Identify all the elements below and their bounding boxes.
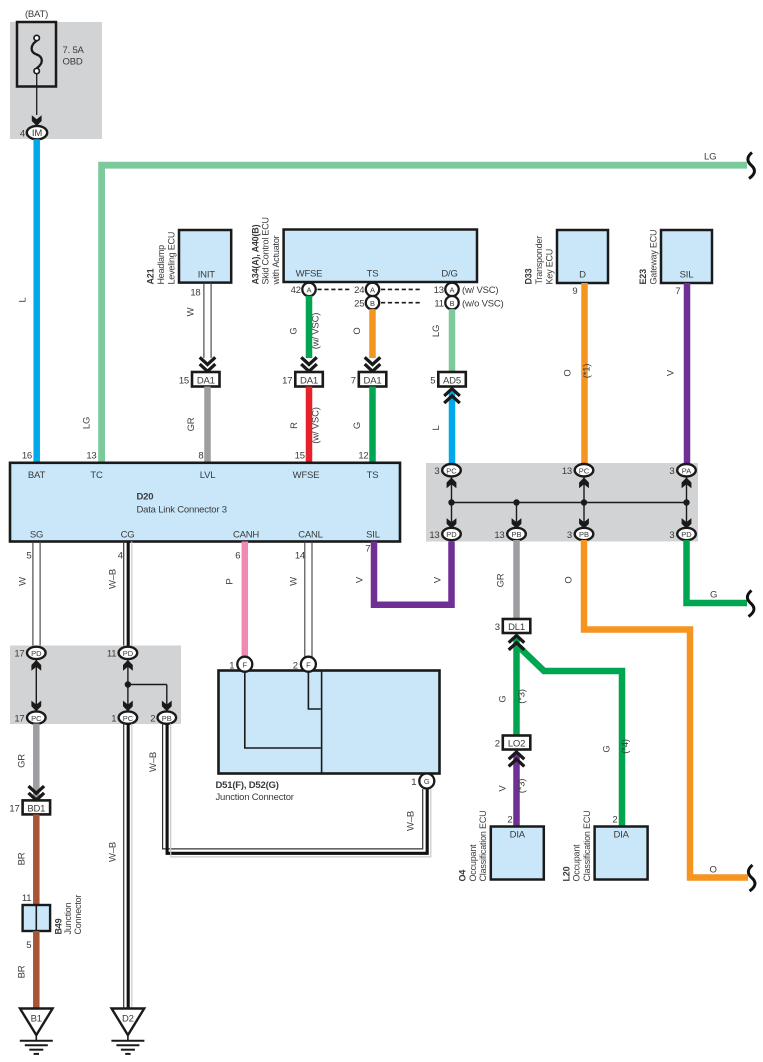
svg-text:1: 1 [111, 713, 116, 724]
svg-text:LG: LG [82, 417, 93, 429]
svg-text:11: 11 [434, 298, 443, 309]
pin 1 G [411, 774, 434, 789]
svg-text:LG: LG [704, 152, 716, 163]
svg-text:42: 42 [291, 285, 301, 296]
wire G (w/ VSC) 42A to DA1 [306, 296, 313, 358]
svg-text:17: 17 [14, 649, 24, 660]
svg-text:F: F [243, 660, 248, 669]
svg-text:B49: B49 [53, 918, 63, 934]
svg-text:DL1: DL1 [508, 622, 525, 633]
svg-text:DA1: DA1 [300, 375, 318, 386]
svg-text:PA: PA [682, 466, 691, 475]
junction dots [448, 499, 454, 505]
wire O 24A/25B to DA1 [369, 309, 376, 358]
wire P D20 CANH to 1 F [242, 542, 249, 658]
svg-text:L: L [431, 425, 442, 430]
svg-text:TC: TC [90, 470, 103, 481]
gray panel [10, 22, 102, 139]
svg-text:2: 2 [293, 660, 298, 671]
svg-text:V: V [433, 576, 444, 583]
svg-text:G: G [289, 327, 300, 334]
svg-text:17: 17 [14, 713, 24, 724]
svg-text:F: F [306, 660, 311, 669]
wire G (*3) DL1 to LO2 [513, 637, 520, 736]
node 17 PC [14, 711, 45, 724]
block links PD-PC and PD-PB branch [36, 660, 167, 712]
svg-text:3: 3 [434, 466, 439, 477]
wire L AD5 to 3 PC [449, 390, 456, 465]
svg-text:WFSE: WFSE [293, 470, 320, 481]
node 2 PB [150, 711, 176, 724]
svg-text:13: 13 [429, 530, 439, 541]
svg-text:1: 1 [229, 660, 234, 671]
svg-text:Classification ECU: Classification ECU [478, 811, 488, 882]
wire LG 13A/11B to AD5 [449, 309, 456, 372]
pin 11 B (w/o VSC) [434, 296, 503, 309]
off-page squiggle G [747, 591, 754, 617]
svg-text:PD: PD [681, 530, 692, 539]
wire G 3 PD to off-page [687, 540, 748, 603]
svg-text:7: 7 [675, 286, 680, 297]
svg-text:17: 17 [9, 803, 19, 814]
wire W-B 2 PB to junction connector G [163, 724, 431, 857]
svg-text:DIA: DIA [510, 830, 526, 841]
svg-text:DA1: DA1 [364, 375, 382, 386]
svg-text:7: 7 [365, 544, 370, 555]
svg-text:Occupant: Occupant [468, 844, 478, 882]
svg-text:with Actuator: with Actuator [271, 235, 281, 285]
svg-text:PC: PC [579, 466, 590, 475]
svg-text:Leveling ECU: Leveling ECU [166, 232, 176, 285]
svg-text:3: 3 [495, 622, 500, 633]
connector 3 DL1 [495, 619, 531, 633]
pin 24 A [354, 283, 379, 296]
svg-text:(*1): (*1) [582, 364, 593, 379]
svg-text:D51(F), D52(G): D51(F), D52(G) [216, 780, 279, 791]
svg-text:IM: IM [32, 128, 42, 139]
svg-text:Classification ECU: Classification ECU [582, 811, 592, 882]
svg-text:Junction Connector: Junction Connector [216, 792, 294, 803]
svg-text:A: A [449, 286, 454, 295]
svg-text:16: 16 [22, 451, 32, 462]
svg-text:PD: PD [123, 649, 134, 658]
svg-text:B: B [449, 299, 454, 308]
svg-text:Skid Control ECU: Skid Control ECU [261, 217, 271, 284]
svg-text:B1: B1 [31, 1014, 42, 1025]
svg-text:PB: PB [579, 530, 589, 539]
svg-text:A34(A), A40(B): A34(A), A40(B) [250, 224, 260, 284]
svg-text:(*4): (*4) [620, 739, 631, 754]
connector 17 DA1 [282, 372, 323, 387]
svg-text:L20: L20 [561, 866, 571, 881]
svg-text:D2: D2 [122, 1014, 134, 1025]
ground D2 [111, 1009, 144, 1054]
column links with arrows [452, 477, 687, 529]
svg-text:18: 18 [190, 288, 200, 299]
svg-text:DIA: DIA [613, 830, 629, 841]
svg-text:(w/ VSC): (w/ VSC) [311, 407, 322, 443]
svg-text:PB: PB [511, 530, 521, 539]
svg-text:13: 13 [86, 451, 96, 462]
svg-text:O: O [563, 369, 574, 376]
svg-text:(w/ VSC): (w/ VSC) [462, 285, 498, 296]
svg-text:CANH: CANH [233, 529, 259, 540]
off-page squiggle LG [748, 153, 755, 179]
svg-text:W–B: W–B [108, 842, 119, 862]
node 1 PC [111, 711, 137, 724]
wire W D20 CANL to 2 F [305, 542, 312, 658]
pin 1 F [229, 657, 252, 672]
svg-text:L: L [18, 297, 29, 302]
svg-text:9: 9 [572, 286, 577, 297]
svg-text:A: A [370, 286, 375, 295]
bus line [452, 502, 687, 504]
svg-text:V: V [666, 369, 677, 376]
wire GR 17 PC to BD1 [33, 724, 40, 798]
wire GR 13 PB to DL1 [513, 540, 520, 619]
svg-text:V: V [498, 785, 509, 792]
wire O (*1) D33 to 13 PC [581, 283, 588, 465]
svg-text:O: O [352, 327, 363, 334]
pin 2 F [293, 657, 316, 672]
svg-text:W–B: W–B [108, 569, 119, 589]
svg-text:11: 11 [107, 649, 116, 660]
svg-text:SIL: SIL [680, 270, 694, 281]
connector 2 LO2 [495, 736, 531, 750]
svg-text:PB: PB [162, 714, 172, 723]
svg-text:13: 13 [494, 530, 504, 541]
svg-text:D20: D20 [137, 492, 154, 503]
svg-text:D: D [579, 270, 586, 281]
svg-text:2: 2 [507, 815, 512, 826]
node 3 PA [669, 464, 695, 477]
dashed links between variant pins [318, 289, 422, 302]
svg-text:Connector: Connector [73, 895, 83, 935]
svg-text:17: 17 [282, 375, 292, 386]
svg-text:INIT: INIT [198, 270, 216, 281]
junction connector B49 [23, 895, 84, 951]
svg-text:2: 2 [150, 713, 155, 724]
wire LG (light green) D20 TC to off-page [102, 165, 747, 463]
svg-text:CANL: CANL [298, 529, 323, 540]
node 4 IM [20, 126, 47, 140]
junction dot [125, 681, 131, 687]
svg-text:P: P [225, 578, 236, 584]
svg-text:1: 1 [411, 777, 416, 788]
block arrows [31, 660, 41, 671]
svg-text:A21: A21 [146, 268, 156, 284]
svg-text:G: G [498, 695, 509, 702]
wire BR BD1 to B49 [33, 814, 40, 905]
svg-text:PC: PC [123, 714, 134, 723]
svg-text:DA1: DA1 [197, 375, 215, 386]
svg-text:TS: TS [367, 470, 379, 481]
connector 17 BD1 [9, 800, 50, 814]
wire V (*3) LO2 to O4 DIA [513, 754, 520, 827]
wire R (w/ VSC) DA1 to D20 WFSE [306, 387, 313, 463]
svg-text:WFSE: WFSE [296, 269, 323, 280]
svg-text:14: 14 [295, 551, 305, 562]
svg-text:BR: BR [17, 852, 28, 865]
svg-text:(w/ VSC): (w/ VSC) [311, 313, 322, 349]
off-page squiggle O [748, 865, 755, 891]
wire V E23 to 3 PA [684, 283, 691, 465]
svg-text:(*3): (*3) [517, 689, 528, 704]
svg-text:GR: GR [17, 754, 28, 768]
svg-text:SG: SG [30, 529, 43, 540]
svg-text:3: 3 [567, 530, 572, 541]
svg-text:LO2: LO2 [508, 739, 525, 750]
connector 15 DA1 [179, 372, 220, 387]
svg-text:PC: PC [446, 466, 457, 475]
svg-text:W: W [18, 577, 29, 586]
pin 13 A (w/ VSC) [434, 283, 499, 296]
svg-text:4: 4 [20, 129, 25, 140]
svg-text:GR: GR [496, 573, 507, 587]
svg-text:E23: E23 [638, 269, 648, 285]
svg-text:Transponder: Transponder [534, 236, 544, 285]
svg-text:PD: PD [31, 649, 42, 658]
svg-text:TS: TS [367, 269, 379, 280]
svg-text:CG: CG [121, 529, 135, 540]
node 13 PC [562, 464, 593, 477]
svg-text:15: 15 [295, 451, 305, 462]
wire BR B49 to B1 [33, 931, 40, 1009]
node 17 PD [14, 647, 45, 660]
svg-text:13: 13 [434, 285, 444, 296]
svg-text:8: 8 [198, 451, 203, 462]
svg-text:7. 5A: 7. 5A [63, 45, 85, 56]
svg-text:W–B: W–B [406, 811, 417, 831]
wire G (*4) branch to L20 DIA [517, 645, 622, 827]
svg-text:O: O [710, 865, 717, 876]
svg-text:D33: D33 [524, 268, 534, 284]
node 3 PB [567, 528, 593, 541]
svg-text:G: G [710, 590, 717, 601]
svg-text:Junction: Junction [63, 902, 73, 934]
node 3 PC [434, 464, 460, 477]
svg-text:A: A [306, 286, 311, 295]
wire O 3 PB to off-page [584, 540, 748, 878]
svg-text:7: 7 [351, 375, 356, 386]
wire GR DA1 to D20 LVL [204, 387, 211, 463]
svg-text:V: V [355, 576, 366, 583]
svg-text:G: G [424, 777, 430, 786]
wire G DA1 to D20 TS [369, 387, 376, 463]
svg-text:O: O [564, 576, 575, 583]
svg-text:(w/o VSC): (w/o VSC) [462, 298, 504, 309]
svg-text:Occupant: Occupant [572, 844, 582, 882]
wire L (blue) IM to D20 BAT [33, 139, 40, 463]
wire W (white) A21 pin 18 to DA1 [204, 283, 211, 358]
svg-text:(BAT): (BAT) [25, 9, 48, 20]
svg-text:Gateway ECU: Gateway ECU [648, 230, 658, 285]
svg-text:13: 13 [562, 466, 572, 477]
svg-text:5: 5 [26, 940, 31, 951]
fuse 7.5A OBD [17, 9, 85, 87]
wire W D20 SG to 17 PD [33, 542, 40, 648]
svg-text:GR: GR [186, 417, 197, 431]
node 3 PD [669, 528, 695, 541]
svg-text:PD: PD [446, 530, 457, 539]
svg-text:BAT: BAT [28, 470, 46, 481]
svg-text:BR: BR [17, 965, 28, 978]
node 13 PB [494, 528, 525, 541]
connector 7 DA1 [351, 372, 387, 387]
svg-text:B: B [370, 299, 375, 308]
svg-text:W: W [289, 577, 300, 586]
svg-text:Key ECU: Key ECU [544, 249, 554, 285]
svg-text:W–B: W–B [148, 752, 159, 772]
svg-text:15: 15 [179, 375, 189, 386]
svg-text:R: R [289, 422, 300, 429]
ground B1 [20, 1009, 53, 1054]
svg-text:LG: LG [431, 325, 442, 337]
svg-text:LVL: LVL [200, 470, 216, 481]
wire V D20 SIL to 13 PD elbow [374, 540, 452, 605]
svg-text:5: 5 [26, 551, 31, 562]
svg-text:D/G: D/G [441, 269, 457, 280]
svg-text:W: W [186, 307, 197, 316]
svg-text:AD5: AD5 [443, 375, 461, 386]
node 13 PD [429, 528, 460, 541]
svg-text:4: 4 [118, 551, 123, 562]
svg-text:G: G [352, 422, 363, 429]
svg-text:6: 6 [235, 551, 240, 562]
svg-text:(*3): (*3) [517, 779, 528, 794]
pin 42 A [291, 283, 316, 296]
svg-text:OBD: OBD [63, 57, 83, 68]
svg-text:3: 3 [669, 466, 674, 477]
svg-text:24: 24 [354, 285, 364, 296]
svg-text:O4: O4 [458, 870, 468, 882]
svg-text:Headlamp: Headlamp [156, 245, 166, 285]
svg-text:SIL: SIL [366, 529, 380, 540]
svg-text:2: 2 [495, 739, 500, 750]
wire W-B 1 PC to D2 [124, 724, 132, 1009]
svg-text:25: 25 [354, 298, 364, 309]
svg-text:Data Link Connector 3: Data Link Connector 3 [137, 505, 227, 516]
svg-text:BD1: BD1 [27, 803, 45, 814]
svg-text:G: G [602, 745, 613, 752]
svg-text:2: 2 [612, 815, 617, 826]
svg-text:3: 3 [669, 530, 674, 541]
svg-text:12: 12 [358, 451, 368, 462]
pin 25 B [354, 296, 379, 309]
wire fuse to IM [36, 74, 38, 115]
connector 5 AD5 [430, 372, 466, 387]
node 11 PD [107, 647, 137, 660]
wire W-B D20 CG to 11 PD [124, 542, 132, 648]
svg-text:5: 5 [430, 375, 435, 386]
svg-text:PC: PC [31, 714, 42, 723]
svg-text:11: 11 [22, 893, 31, 904]
